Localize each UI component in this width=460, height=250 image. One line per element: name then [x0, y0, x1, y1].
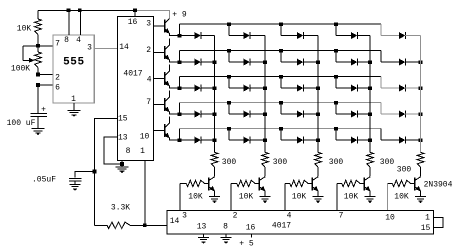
node row 5 bus tap 3 [279, 127, 283, 131]
label U3 4017 [272, 222, 291, 231]
pin 2 label [55, 74, 60, 83]
svg-text:14: 14 [170, 217, 180, 226]
label +5 supply [239, 239, 254, 248]
svg-text:14: 14 [119, 43, 129, 52]
pin 3 label [87, 44, 92, 53]
label 300 col 3 [329, 158, 344, 167]
node col 4 row 4 junction [368, 112, 372, 116]
node col 2 row 5 junction [263, 138, 267, 142]
node row 2 bus tap 3 [279, 49, 283, 53]
svg-text:15: 15 [118, 115, 128, 124]
pin 8 label [223, 223, 228, 232]
wire 555 pin 4 [79, 10, 81, 35]
resistor R12 10K base col 4 [337, 180, 364, 186]
wire 555 pin 7 [23, 45, 53, 47]
wire 4017 output to Q4 base [154, 104, 165, 106]
node col 2 row 3 junction [263, 86, 267, 90]
svg-text:4017: 4017 [272, 222, 291, 231]
svg-text:100K: 100K [11, 65, 30, 74]
svg-text:2: 2 [233, 211, 238, 220]
node rail junction pin4 [78, 9, 82, 13]
svg-text:1: 1 [140, 147, 145, 156]
resistor R7 300 column 4 [367, 152, 374, 176]
resistor R3 3.3K [95, 222, 168, 228]
diode D52 row 5 col 2 [229, 129, 265, 144]
svg-text:10K: 10K [394, 193, 409, 202]
svg-text:10: 10 [140, 133, 150, 142]
transistor Q5 row driver NPN [164, 117, 170, 139]
transistor Q3 row driver NPN [164, 65, 170, 87]
label R1 10K [17, 25, 32, 34]
resistor R6 300 column 3 [315, 152, 322, 176]
wire Q1 emitter to row 1 [170, 34, 180, 36]
diode D33 row 3 col 3 [281, 77, 318, 92]
node row 1 emitter junction [178, 34, 182, 38]
label 10K col 5 [394, 193, 409, 202]
wire 4017 pin16 [134, 10, 136, 16]
wire row 3 upper bus [180, 76, 382, 78]
wire 4017 output to Q1 base [154, 25, 165, 27]
resistor R1 10K [35, 10, 42, 45]
wire Q2 emitter to row 2 [170, 60, 180, 62]
diode D21 row 2 col 1 [180, 59, 215, 66]
ground Q9 emitter [365, 197, 376, 204]
svg-text:3: 3 [182, 211, 187, 220]
pin 1 label [425, 213, 430, 222]
ground 4017 pin8 [116, 167, 129, 174]
node row 4 bus tap 3 [279, 101, 283, 105]
pin 8 label [126, 147, 131, 156]
node pin7/wiper junction [36, 44, 40, 48]
ground U3 pin8 [221, 237, 232, 244]
svg-text:3: 3 [146, 20, 151, 29]
pin 3 label [146, 20, 151, 29]
pin 7 label [55, 40, 60, 49]
wire column 3 [317, 36, 319, 153]
resistor R5 300 column 2 [262, 152, 269, 176]
node col 4 row 5 junction [368, 138, 372, 142]
svg-text:13: 13 [118, 134, 128, 143]
diode D15 row 1 col 5 [381, 24, 421, 39]
wire Q10 emitter stub [420, 191, 422, 196]
node row 3 emitter junction [178, 86, 182, 90]
resistor R8 300 column 5 [417, 152, 424, 176]
wire col 2 base to 4017 pin 2 [230, 184, 232, 211]
svg-text:13: 13 [197, 223, 207, 232]
svg-text:300: 300 [273, 158, 288, 167]
diode D42 row 4 col 2 [229, 103, 265, 118]
node row 4 emitter junction [178, 112, 182, 116]
wire row 1 riser [179, 24, 181, 35]
node col 3 row 5 junction [316, 138, 320, 142]
svg-text:4: 4 [147, 76, 152, 85]
label 300 col 2 [273, 158, 288, 167]
wire Q9 emitter stub [369, 191, 371, 196]
node col 4 row 2 junction [368, 60, 372, 64]
pin 14 label [119, 43, 129, 52]
ground below C2 [70, 184, 81, 191]
label 10K col 3 [292, 193, 307, 202]
node row 5 bus tap 2 [227, 127, 231, 131]
svg-text:555: 555 [63, 57, 84, 69]
node col 3 row 2 junction [316, 60, 320, 64]
node clock net junction [143, 224, 147, 228]
wire Q3 emitter to row 3 [170, 86, 180, 88]
wire row 4 riser [179, 103, 181, 114]
svg-text:+: + [41, 106, 46, 115]
wire to C1 [37, 85, 39, 113]
svg-text:.05uF: .05uF [32, 176, 56, 185]
svg-text:300: 300 [222, 158, 237, 167]
wire Q6 emitter stub [214, 191, 216, 196]
svg-text:2: 2 [146, 46, 151, 55]
capacitor C2 .05uF [69, 172, 95, 185]
wire 555 pin 6 [38, 84, 53, 86]
pin 15 label [421, 224, 431, 233]
wire 4017 output to Q3 base [154, 78, 165, 80]
wire pin16 +5 stub [251, 234, 253, 238]
svg-text:7: 7 [55, 40, 60, 49]
pin 13 label [197, 223, 207, 232]
wire 4017 pin13 [104, 137, 122, 164]
svg-text:300: 300 [397, 166, 412, 175]
wire column 2 [264, 36, 266, 153]
node col 5 row 4 junction [419, 112, 423, 116]
svg-text:4017: 4017 [123, 70, 142, 79]
diode D35 row 3 col 5 [381, 77, 421, 92]
resistor R13 10K base col 5 [387, 180, 414, 186]
diode D41 row 4 col 1 [180, 111, 215, 118]
diode D24 row 2 col 4 [336, 51, 370, 66]
ground Q8 emitter [313, 197, 324, 204]
wire column 4 [369, 36, 371, 153]
wire Q8 emitter stub [317, 191, 319, 196]
svg-text:16: 16 [128, 18, 138, 27]
wire 4017 pin1 to clock net [144, 161, 146, 226]
resistor R9 10K base col 1 [180, 180, 209, 186]
op-amp U1 555 timer body [53, 35, 94, 103]
node row 5 emitter junction [178, 138, 182, 142]
svg-text:10K: 10K [17, 25, 32, 34]
svg-text:10K: 10K [344, 193, 359, 202]
pin 16 label [246, 224, 256, 233]
wire Q7 emitter stub [264, 191, 266, 196]
label U2 4017 [123, 70, 142, 79]
node col 2 row 4 junction [263, 112, 267, 116]
svg-text:10K: 10K [239, 193, 254, 202]
node col 3 row 3 junction [316, 86, 320, 90]
potentiometer R2 100K [23, 46, 41, 75]
node col 4 row 3 junction [368, 86, 372, 90]
svg-text:1: 1 [71, 95, 76, 104]
pin 2 label [233, 211, 238, 220]
transistor Q2 row driver NPN [164, 39, 170, 61]
diode D51 row 5 col 1 [180, 137, 215, 144]
transistor Q6 column sink NPN 2N3904 [209, 177, 215, 192]
ground Q6 emitter [209, 197, 220, 204]
wire col 5 base to 4017 pin 10 [386, 184, 388, 211]
label +9 supply [172, 11, 187, 20]
wire pin1 to pin15 bracket [434, 218, 444, 228]
svg-text:10K: 10K [188, 193, 203, 202]
svg-text:7: 7 [146, 98, 151, 107]
wire row 2 riser [179, 51, 181, 62]
svg-text:4: 4 [287, 211, 292, 220]
diode D23 row 2 col 3 [281, 51, 318, 66]
transistor Q9 column sink NPN 2N3904 [364, 177, 370, 192]
pin 15 label [118, 115, 128, 124]
diode D43 row 4 col 3 [281, 103, 318, 118]
svg-text:7: 7 [339, 211, 344, 220]
wire row 5 upper bus [180, 128, 382, 130]
node col 5 row 5 junction [419, 138, 423, 142]
wire 555 pin 8 [68, 10, 70, 35]
pin 14 label [170, 217, 180, 226]
node row 1 bus tap 3 [279, 22, 283, 26]
svg-text:+ 9: + 9 [172, 11, 187, 20]
diode D31 row 3 col 1 [180, 85, 215, 92]
pin 4 label [76, 36, 81, 45]
pin 3 label [182, 211, 187, 220]
pin 6 label [55, 83, 60, 92]
wire 4017 output to Q5 base [154, 130, 165, 132]
svg-text:15: 15 [421, 224, 431, 233]
ground Q7 emitter [260, 197, 271, 204]
wire col 3 base to 4017 pin 4 [284, 184, 286, 211]
capacitor C1 100uF [31, 106, 47, 129]
node row 4 bus tap 2 [227, 101, 231, 105]
node pin13/pin8 ground junction [120, 162, 124, 166]
diode D32 row 3 col 2 [229, 77, 265, 92]
diode D55 row 5 col 5 [381, 129, 421, 144]
wire 555 pin3 to 4017 pin14 (gray) [94, 47, 117, 49]
pin 10 label [385, 213, 395, 222]
ground Q10 emitter [415, 197, 426, 204]
diode D13 row 1 col 3 [281, 24, 318, 39]
node row 4 bus tap 4 [334, 101, 338, 105]
wire +9 rail right (gray) to Q1 collector [135, 10, 169, 18]
svg-text:2: 2 [55, 74, 60, 83]
label R3 3.3K [111, 204, 130, 213]
svg-text:+ 5: + 5 [239, 239, 254, 248]
diode D45 row 4 col 5 [381, 103, 421, 118]
wire pin13 ground stub [203, 234, 205, 237]
resistor R10 10K base col 2 [231, 180, 259, 186]
transistor Q7 column sink NPN 2N3904 [259, 177, 265, 192]
diode D22 row 2 col 2 [229, 51, 265, 66]
diode D12 row 1 col 2 [229, 24, 265, 39]
node row 3 bus tap 2 [227, 75, 231, 79]
ground U3 pin13 [198, 237, 209, 244]
label 300 col 5 [397, 166, 412, 175]
svg-text:16: 16 [246, 224, 256, 233]
wire row 1 upper bus [180, 23, 382, 25]
pin 8 label [64, 36, 69, 45]
diode D54 row 5 col 4 [336, 129, 370, 144]
pin 16 label [128, 18, 138, 27]
node rail junction pin8 [67, 9, 71, 13]
ground 555 pin 1 [68, 110, 81, 117]
transistor Q1 row driver NPN [164, 19, 170, 34]
node 555 pin6 junction [36, 83, 40, 87]
wire Q4 emitter to row 4 [170, 112, 180, 114]
svg-text:8: 8 [223, 223, 228, 232]
pin 1 label [140, 147, 145, 156]
pin 7 label [146, 98, 151, 107]
node row 3 bus tap 3 [279, 75, 283, 79]
label 300 col 1 [222, 158, 237, 167]
svg-text:3.3K: 3.3K [111, 204, 130, 213]
node col 1 row 5 junction [213, 138, 217, 142]
diode D11 row 1 col 1 [180, 32, 215, 39]
node col 2 row 2 junction [263, 60, 267, 64]
wire 555 pin 1 [73, 103, 75, 110]
node row 2 bus tap 4 [334, 49, 338, 53]
ground below C1 [32, 129, 45, 136]
label U1 555 [63, 57, 84, 69]
diode D25 row 2 col 5 [381, 51, 421, 66]
op-amp U2 4017 counter body [117, 17, 153, 161]
pin 13 label [118, 134, 128, 143]
diode D53 row 5 col 3 [281, 129, 318, 144]
node col 1 row 3 junction [213, 86, 217, 90]
wire pin8 ground stub [225, 234, 227, 237]
wire col 4 base to 4017 pin 7 [336, 184, 338, 211]
svg-text:100 uF: 100 uF [7, 119, 36, 128]
node col 1 row 4 junction [213, 112, 217, 116]
svg-text:4: 4 [76, 36, 81, 45]
node .05uF junction [93, 170, 97, 174]
pin 2 label [146, 46, 151, 55]
wire 4017 output to Q2 base [154, 52, 165, 54]
svg-text:8: 8 [126, 147, 131, 156]
label C1 100 uF [7, 119, 36, 128]
diode D44 row 4 col 4 [336, 103, 370, 118]
diode D14 row 1 col 4 [336, 24, 370, 39]
label 300 col 4 [380, 158, 395, 167]
node col 5 row 3 junction [419, 86, 423, 90]
label 10K col 4 [344, 193, 359, 202]
svg-text:10K: 10K [292, 193, 307, 202]
wire column 1 [214, 36, 216, 153]
wire row 3 riser [179, 77, 181, 88]
transistor Q8 column sink NPN 2N3904 [312, 177, 318, 192]
diode D34 row 3 col 4 [336, 77, 370, 92]
label 10K col 1 [188, 193, 203, 202]
node row 1 bus tap 4 [334, 22, 338, 26]
wire +9 rail [38, 9, 135, 11]
label 10K col 2 [239, 193, 254, 202]
pin 4 label [287, 211, 292, 220]
wire Q5 emitter to row 5 [170, 138, 180, 140]
wire row 5 riser [179, 129, 181, 140]
pin 1 label [71, 95, 76, 104]
node col 1 row 2 junction [213, 60, 217, 64]
node row 3 bus tap 4 [334, 75, 338, 79]
label 2N3904 [424, 181, 453, 190]
svg-text:10: 10 [385, 213, 395, 222]
node row 1 bus tap 2 [227, 22, 231, 26]
resistor R4 300 column 1 [211, 152, 218, 176]
svg-text:6: 6 [55, 83, 60, 92]
node col 3 row 4 junction [316, 112, 320, 116]
wire row 2 upper bus [180, 50, 382, 52]
wire column 5 [420, 36, 422, 153]
svg-text:8: 8 [64, 36, 69, 45]
op-amp U3 4017 counter body [167, 210, 433, 233]
wire col 1 base to 4017 pin 3 [179, 184, 181, 211]
svg-text:2N3904: 2N3904 [424, 181, 453, 190]
node 555 pin2 junction [36, 73, 40, 77]
node row 2 emitter junction [178, 60, 182, 64]
svg-text:3: 3 [87, 44, 92, 53]
wire 4017 pin8 ground stub [121, 161, 123, 167]
pin 10 label [140, 133, 150, 142]
resistor R11 10K base col 3 [285, 180, 312, 186]
svg-text:1: 1 [425, 213, 430, 222]
node rail junction 4017 pin16 [133, 9, 137, 13]
wire 4017 pin15 to reset net [95, 118, 118, 225]
label R2 100K [11, 65, 30, 74]
transistor Q10 column sink NPN 2N3904 [415, 177, 421, 192]
svg-text:300: 300 [380, 158, 395, 167]
wire 555 pin 2 [38, 74, 53, 76]
label C2 .05uF [32, 176, 56, 185]
wire row 4 upper bus [180, 102, 382, 104]
transistor Q4 row driver NPN [164, 91, 170, 113]
node row 5 bus tap 4 [334, 127, 338, 131]
pin 4 label [147, 76, 152, 85]
node row 2 bus tap 2 [227, 49, 231, 53]
node col 5 row 2 junction [419, 60, 423, 64]
svg-text:300: 300 [329, 158, 344, 167]
pin 7 label [339, 211, 344, 220]
